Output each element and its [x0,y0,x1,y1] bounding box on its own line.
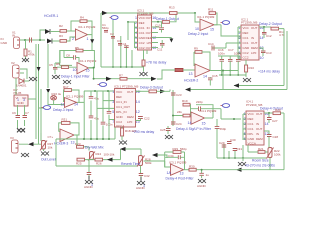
svg-text:Delay-2 Output: Delay-2 Output [259,22,282,26]
svg-text:OUT: OUT [256,112,263,116]
svg-text:IN: IN [256,132,259,136]
svg-text:Out Level: Out Level [41,158,56,162]
regulator IC7 78L05 [13,88,28,106]
svg-text:100-10k: 100-10k [104,152,115,156]
wire bottom long rail [56,139,138,166]
wire bus drop 4 [103,91,115,139]
svg-text:43-270 ms 2/s-0d0s: 43-270 ms 2/s-0d0s [245,164,275,168]
capacitor C10 at IC3 [155,22,164,33]
svg-text:PT2399_NB: PT2399_NB [241,21,257,25]
svg-text:R24: R24 [96,152,102,156]
svg-text:78L05: 78L05 [13,91,22,95]
wire reverb input row [144,161,165,167]
op-amp IC1B delay-2 input [195,15,215,32]
capacitor C20 47u [89,116,100,121]
svg-text:REF: REF [248,117,254,121]
ground R18 [119,141,127,145]
wire R2 to opamp [67,30,76,32]
arrow on filter output [106,77,112,81]
wire IC2 out [259,26,271,28]
svg-text:15: 15 [86,69,90,73]
capacitor C16 [220,56,225,75]
capacitor C31 [233,147,243,151]
svg-text:C11: C11 [157,48,163,52]
svg-text:HCxER-1: HCxER-1 [44,14,58,18]
resistor R13 top [169,6,177,15]
trimpot R22 room size [243,140,281,170]
svg-text:R25: R25 [76,162,82,166]
feedback loop IC1C [60,51,95,68]
svg-text:Delay-4 Sig/LP In-Filter: Delay-4 Sig/LP In-Filter [176,127,212,131]
wire diode2 to R3 [52,40,60,42]
svg-text:C15: C15 [212,74,218,78]
svg-text:+78 ms delay: +78 ms delay [146,60,167,64]
resistor R11 [208,8,216,15]
wire delay1 out up to top right [170,13,177,22]
svg-text:OUT: OUT [146,46,153,50]
capacitor C36 [107,111,112,113]
capacitor C3 100n [117,39,122,45]
wire +15 stub [55,50,60,63]
svg-text:14: 14 [74,102,78,106]
capacitor C2 560p [110,32,115,38]
capacitor C22 at IC5 [136,117,150,121]
wire top rail drop [100,13,102,24]
IC IC6 PT2399 delay 4 [246,100,264,146]
resistor R7 [119,74,127,81]
ground above X3 [17,129,25,133]
resistor R14 delay2 out [271,27,285,37]
svg-text:1: 1 [143,184,145,188]
net oval flag delay4 [221,104,230,108]
ground C33 [85,176,93,184]
capacitor C33 [87,160,92,179]
svg-text:14: 14 [265,122,269,126]
pin numbers IC2 [239,26,264,60]
pot R27 out level [40,141,53,151]
svg-text:DEM: DEM [256,137,263,141]
resistor R25 [76,158,85,165]
arrow on room return [236,168,242,172]
svg-text:VCC: VCC [248,112,255,116]
connector X2 power [11,61,19,78]
capacitor C25 with ground [160,126,171,134]
svg-text:15: 15 [202,122,206,126]
wire left bus D [47,44,49,88]
op-amp IC1A [72,25,96,41]
wire caps bottom rail to ground [219,74,246,76]
feedback loop wire IC1A [71,21,92,50]
svg-text:1: 1 [135,16,137,20]
svg-text:GND: GND [116,115,124,119]
feedback loop IC2A [64,90,80,102]
svg-text:16: 16 [136,90,140,94]
wire IC6 left stubs [243,114,246,140]
arrow junction on IC1A output [90,39,94,43]
capacitor C29 [219,141,226,147]
wire R28 bottom [140,166,142,174]
svg-text:10: 10 [260,56,264,60]
wire into HCxER-2 [157,70,195,79]
svg-text:VCC: VCC [116,90,123,94]
svg-text:R23: R23 [75,142,81,146]
svg-text:CC2: CC2 [243,51,249,55]
svg-text:DPL_IN: DPL_IN [116,110,127,114]
svg-text:2: 2 [72,37,74,41]
wire vertical c-fan 3 [120,36,122,67]
capacitor C8 filter [64,51,79,63]
svg-text:IC3.1 PQ399: IC3.1 PQ399 [169,160,187,164]
capacitor C5 supply [49,63,58,74]
svg-text:1: 1 [17,98,19,102]
resistor R6 filter input [56,62,77,69]
svg-text:4: 4 [135,31,137,35]
wire pot R27 to ground [41,133,44,151]
svg-text:6: 6 [135,41,137,45]
svg-text:14: 14 [203,75,207,79]
svg-text:OUT: OUT [256,127,263,131]
svg-text:C3: C3 [117,39,121,43]
wire IC2A out to bus [79,91,84,139]
svg-text:R11: R11 [208,8,214,12]
resistor R31 mixer loop [62,118,71,125]
dark resistor pair input [175,68,183,71]
svg-text:7: 7 [135,46,137,50]
capacitor C1 560p [102,23,109,32]
svg-text:VCCA: VCCA [248,142,256,146]
wire trimpot R24 [85,149,121,160]
pin numbers IC5 [112,90,140,124]
svg-text:VCCA: VCCA [116,124,124,128]
wire regulator in [16,78,36,99]
svg-text:IC1.1 PQ399: IC1.1 PQ399 [78,25,96,29]
svg-text:C22: C22 [144,117,150,121]
svg-text:GND: GND [1,41,9,45]
wire HCxER-2 output [210,71,238,90]
wire delay3 to rail [136,90,150,92]
trimpot R28 reverb time [137,156,152,167]
wire vertical c-fan 1 [100,24,102,67]
wire mixer loop [59,123,79,135]
capacitor C4 100n [123,42,129,48]
wire IC3 bottom pins [146,50,148,54]
wire vertical c-fan 2 [112,20,114,67]
wire return rail y85 [234,85,284,87]
svg-text:C24: C24 [176,122,182,126]
svg-text:Delay-2 Input: Delay-2 Input [188,32,208,36]
net oval flag near C1 [110,16,119,20]
arrow right on delay3 wire [160,89,166,93]
svg-text:15: 15 [210,28,214,32]
junction IC3 out [157,21,159,23]
pin numbers IC3 [135,16,156,50]
svg-text:C32: C32 [144,174,150,178]
svg-text:Dry-Wet Mix: Dry-Wet Mix [85,146,104,150]
svg-text:C27: C27 [272,119,278,123]
svg-text:Reverb Time: Reverb Time [121,162,140,166]
svg-text:R10: R10 [249,66,255,70]
wire caps top rail [218,55,240,57]
net oval flag delay2 in [221,21,230,25]
wire IC3B out [184,169,190,171]
svg-text:Delay-4 Post-Filter: Delay-4 Post-Filter [166,176,195,180]
svg-text:C12: C12 [266,34,272,38]
svg-text:560p: 560p [102,26,109,30]
wire IC5 right column [172,90,174,126]
svg-text:12: 12 [61,102,65,106]
wire bus drop 3 [97,91,115,139]
svg-text:220p: 220p [196,100,203,104]
wire IC4A out right [205,109,242,119]
svg-text:C25: C25 [160,128,166,132]
capacitor C6 polarized [12,111,20,118]
svg-text:C5: C5 [49,63,53,67]
op-amp IC1D HCxER-2 [189,64,211,79]
wire bus drop 5 [109,91,115,139]
svg-text:R20: R20 [275,108,281,112]
resistor R17 [63,85,72,92]
resistor R30 [189,165,196,172]
svg-text:CC2: CC2 [243,56,249,60]
diode D1 [45,29,50,34]
svg-text:REF: REF [139,21,145,25]
wire IC6 out [264,112,273,114]
arrow down on bus D [46,89,50,93]
svg-text:R16 4u: R16 4u [52,92,62,96]
svg-text:IN: IN [12,33,15,37]
arrow mixer wire [107,158,113,162]
svg-text:1u: 1u [206,173,210,177]
resistor R32 [177,110,190,117]
svg-text:C6: C6 [12,111,16,115]
capacitor C35 [199,173,209,178]
resistor R26 [95,158,103,165]
arrow down on bus B [37,67,41,71]
svg-text:R13: R13 [169,6,175,10]
svg-text:12: 12 [152,36,156,40]
capacitor C32 [139,174,150,181]
svg-text:LPF: LPF [127,120,133,124]
capacitor C24 on column [171,122,182,126]
svg-text:470k: 470k [28,53,35,57]
svg-text:OUT: OUT [146,31,153,35]
wire delay2 out to right rail [279,29,285,86]
ground room [238,162,246,166]
svg-text:R21: R21 [258,147,264,151]
svg-text:C30: C30 [230,138,236,142]
svg-text:IN: IN [256,122,259,126]
op-amp IC2A delay3 [61,94,84,107]
svg-text:CC1: CC1 [243,36,249,40]
junction input node [24,39,26,41]
wire diode1 to R2 [50,31,60,33]
arrow on y89 rail [185,87,191,91]
svg-text:3: 3 [23,98,25,102]
junction top rail [194,12,196,14]
arrow on top rail [102,11,108,16]
svg-text:R6: R6 [56,62,60,66]
svg-text:13: 13 [71,141,75,145]
capacitor C19 47u [89,96,100,100]
resistor R8 delay time [142,60,145,66]
svg-text:10: 10 [195,27,199,31]
svg-text:560p: 560p [220,127,227,131]
ground C25 [165,135,173,139]
svg-text:~290 ms delay: ~290 ms delay [132,130,154,134]
svg-text:REF: REF [243,31,249,35]
svg-text:1: 1 [112,90,114,94]
svg-text:C?+: C?+ [48,135,54,139]
net oval flag delay3 [42,106,51,110]
svg-text:C2: C2 [110,32,114,36]
op-amp IC3B post filter [167,160,187,175]
op-amp IC1C delay-1 filter [73,63,90,74]
svg-text:1: 1 [87,37,89,41]
svg-text:X2: X2 [11,61,15,65]
svg-text:R30: R30 [189,165,195,169]
svg-text:100n: 100n [234,52,241,56]
svg-text:CC2: CC2 [139,46,145,50]
svg-text:R3: R3 [59,34,63,38]
wire R30 to junction [196,170,284,173]
svg-text:13: 13 [180,172,184,176]
capacitor C26 220p [196,100,203,111]
capacitor C1 input [30,38,32,43]
resistor R15 [149,90,157,93]
capacitor C34 postfilter [168,154,180,159]
capacitor C27 [267,113,278,123]
svg-text:R26: R26 [96,162,102,166]
svg-text:1A: 1A [167,171,172,175]
feedback loop IC3B [165,152,185,170]
svg-text:REF: REF [116,95,122,99]
svg-text:C23: C23 [176,93,182,97]
wire X3 to pot [19,143,41,145]
resistor R21 room [258,147,265,153]
resistor R9 [194,47,202,54]
capacitor C23 on column [171,93,182,97]
resistor R4 [80,16,87,23]
svg-text:DPL: DPL [248,132,254,136]
wire IC2 left stubs [238,27,241,58]
svg-text:1: 1 [91,183,93,187]
svg-text:X3: X3 [10,136,14,140]
svg-text:LPF: LPF [251,51,257,55]
resistor R20 delay4 out [273,108,281,115]
resistor R1 to ground [24,49,35,57]
connector X1 [1,31,20,49]
wire under IC6 [217,119,267,158]
svg-text:OUT: OUT [251,41,258,45]
svg-text:IC4.1 PQ399: IC4.1 PQ399 [199,109,217,113]
wire under IC3 row [101,50,144,72]
svg-text:14: 14 [136,100,140,104]
ground C32 [137,177,145,185]
trimpot R16 input level [39,92,65,108]
ground C35 [198,179,206,183]
svg-text:IN: IN [147,26,150,30]
svg-text:GND: GND [248,137,256,141]
svg-text:CC1: CC1 [139,26,145,30]
svg-text:1N4001: 1N4001 [16,84,27,88]
resistor R10 under IC2 [245,60,255,77]
wire IC3 right pin stubs [152,27,172,48]
resistor R2 [59,24,67,32]
svg-text:CC1_OUT: CC1_OUT [116,105,130,109]
svg-text:5: 5 [135,36,137,40]
svg-text:Delay-3 Output: Delay-3 Output [140,85,163,89]
wire R15 to arrow [157,90,171,92]
ground input [22,58,29,62]
capacitor C18 [236,56,241,75]
connector X3 output [10,136,18,153]
wire R1 lead [25,40,27,58]
svg-text:14: 14 [260,36,264,40]
op-amp IC4A delay4 filter [188,109,217,126]
svg-text:IC1.1 PQ399: IC1.1 PQ399 [66,94,84,98]
wire delay3 top bus [84,90,114,92]
wire R21 [248,145,268,152]
svg-text:5: 5 [112,110,114,114]
svg-text:DEM: DEM [251,46,258,50]
wire mixer bus [56,132,115,140]
ground filter [63,80,71,84]
wire second feedback [158,155,168,158]
wire delay feedback row [124,149,141,156]
svg-text:LPF: LPF [147,41,153,45]
resistor R23 [75,142,89,151]
wire into IC2 area from caps left [212,43,238,48]
wire filter output [89,68,152,79]
svg-text:C7: C7 [25,111,29,115]
svg-text:14: 14 [188,121,192,125]
svg-text:CC1: CC1 [243,41,249,45]
wire long left bus A [35,44,37,139]
svg-text:OUT: OUT [146,16,153,20]
svg-text:Delay-1 Input Filter: Delay-1 Input Filter [61,74,91,78]
resistor R5 filter [75,46,83,52]
svg-text:OUT: OUT [127,90,134,94]
capacitor C21 100n [101,122,113,126]
svg-text:CC1: CC1 [248,127,254,131]
svg-text:GND: GND [243,46,251,50]
svg-text:AGND: AGND [197,184,207,188]
wire IC1B output to IC2 [214,25,241,36]
trimpot R24 drywet [88,152,115,161]
wire X2 to bus [20,69,27,79]
IC IC2 PT2399 delay 2 [241,18,259,61]
diode D3 power [19,79,29,84]
capacitor C11 at IC3 bottom [157,40,165,52]
capacitor C28 polarized [264,131,278,140]
wire to delay4 filter input [173,115,191,117]
wire left bus C [40,89,42,141]
arrow on y85 rail [234,83,239,87]
svg-text:C29: C29 [219,141,225,145]
wire bus drop 2 [90,91,92,139]
capacitor C30 [227,138,236,144]
wire room size return [283,113,285,170]
IC IC5 PT2399 delay 3 [114,85,138,128]
svg-text:VCC: VCC [243,26,250,30]
svg-text:100n: 100n [218,52,225,56]
svg-text:IN: IN [251,36,254,40]
svg-text:10: 10 [152,46,156,50]
svg-text:10: 10 [73,68,77,72]
wire R3 to opamp [67,37,76,41]
wire IC5 out [136,90,141,92]
wire vertical c-fan 4 [126,22,128,67]
